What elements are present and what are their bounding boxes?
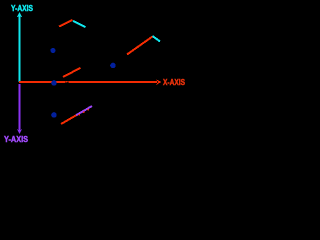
line L4 lower diagonal purple part <box>76 106 92 115</box>
label X-AXIS right (red) <box>163 78 186 87</box>
point P4 (blue dot lower-left) <box>51 112 57 118</box>
y-axis up arrowhead <box>17 12 22 18</box>
line L3 short diagonal above x-axis (red) <box>63 68 81 77</box>
label Y-AXIS bottom (purple) <box>4 135 29 144</box>
y-axis down arrowhead <box>17 129 22 134</box>
y-axis positive (cyan vertical line) <box>19 14 21 83</box>
point P1 (blue dot upper-left) <box>50 48 55 53</box>
point P3 (blue dot right of center) <box>110 63 116 69</box>
x-axis gap (black notch near x=66) <box>66 81 69 84</box>
y-axis negative (purple vertical line) <box>19 84 21 131</box>
svg-text:Y-AXIS: Y-AXIS <box>4 135 29 144</box>
label Y-AXIS top (cyan) <box>11 4 34 13</box>
x-axis right arrowhead <box>156 79 162 85</box>
svg-text:X-AXIS: X-AXIS <box>163 78 186 87</box>
line L1a roof left wing (red) <box>59 20 73 27</box>
svg-text:Y-AXIS: Y-AXIS <box>11 4 34 13</box>
point P2 (blue dot on x-axis) <box>51 80 57 86</box>
x-axis (red horizontal line) <box>19 81 157 83</box>
line L4 red speckles over purple part <box>79 109 90 116</box>
line L1b roof right wing (cyan) <box>73 21 86 27</box>
line L4 lower diagonal red part <box>61 114 78 124</box>
line L2 long diagonal (red) <box>127 37 153 55</box>
line L2 cyan tip <box>153 36 161 42</box>
